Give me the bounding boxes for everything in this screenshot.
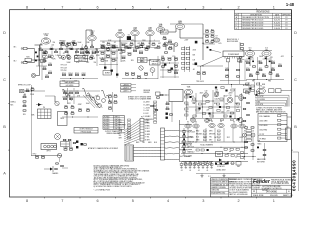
resistor R100 bbox=[245, 127, 248, 128]
svg-text:.022: .022 bbox=[51, 44, 54, 46]
svg-text:LED1 GRN: LED1 GRN bbox=[260, 120, 268, 122]
svg-text:SHEET 1 OF 1: SHEET 1 OF 1 bbox=[283, 195, 293, 197]
svg-text:10uF: 10uF bbox=[86, 103, 90, 105]
wire j5 down bbox=[244, 137, 246, 160]
svg-text:.68: .68 bbox=[23, 94, 25, 96]
svg-text:7: 7 bbox=[61, 199, 63, 203]
resistor R236 bbox=[174, 64, 178, 67]
svg-text:3: 3 bbox=[202, 6, 204, 10]
svg-text:EFFECTS LOOP: EFFECTS LOOP bbox=[18, 84, 32, 86]
svg-text:R83: R83 bbox=[71, 111, 74, 113]
resistor R227 bbox=[125, 72, 129, 75]
svg-text:.022: .022 bbox=[276, 74, 279, 76]
resistor R102 bbox=[245, 141, 248, 142]
svg-text:P5 RED: P5 RED bbox=[104, 126, 110, 128]
value speckle band1 bbox=[44, 58, 95, 61]
wire c2 low bbox=[122, 78, 158, 79]
svg-text:R221: R221 bbox=[121, 49, 125, 51]
label pa bbox=[196, 81, 204, 83]
box c2 lbl2 bbox=[150, 60, 161, 66]
resistor R98 bbox=[247, 114, 250, 115]
svg-text:C61: C61 bbox=[23, 104, 26, 106]
svg-text:P/N 057-00441: P/N 057-00441 bbox=[81, 132, 92, 134]
svg-text:2: 2 bbox=[238, 199, 240, 203]
wire mid bus2 bbox=[100, 47, 160, 48]
ribbon hooks bbox=[255, 95, 289, 106]
svg-text:V6: V6 bbox=[241, 121, 243, 123]
svg-text:2 TO J6 RING: 2 TO J6 RING bbox=[256, 99, 266, 101]
svg-text:TP20 0.45V: TP20 0.45V bbox=[196, 81, 204, 83]
resistor R31 bbox=[168, 40, 171, 43]
svg-text:7 YEL: 7 YEL bbox=[145, 137, 149, 139]
svg-text:47uF 450V: 47uF 450V bbox=[188, 131, 196, 133]
resistor R122 bbox=[56, 163, 59, 164]
ground sym a6 bbox=[44, 166, 58, 175]
value labels top bbox=[40, 39, 173, 57]
svg-text:8: 8 bbox=[26, 6, 28, 10]
comp col e5b bbox=[263, 143, 266, 160]
svg-text:J6: J6 bbox=[252, 131, 254, 133]
resistor R70 bbox=[63, 91, 66, 94]
svg-text:R45 220K GRID: R45 220K GRID bbox=[227, 41, 239, 43]
node blob bbox=[195, 41, 198, 44]
svg-text:T2: T2 bbox=[260, 86, 262, 88]
svg-text:R43: R43 bbox=[211, 34, 214, 36]
svg-text:R232: R232 bbox=[167, 57, 171, 59]
resistor R81 bbox=[71, 105, 74, 108]
fan wires bbox=[124, 120, 140, 146]
svg-text:DWELL: DWELL bbox=[11, 101, 16, 103]
svg-text:R76: R76 bbox=[114, 94, 117, 96]
svg-text:V3: V3 bbox=[211, 121, 213, 123]
label ac bbox=[216, 169, 226, 172]
node blob2 bbox=[195, 63, 224, 67]
value speckle band2 bbox=[105, 60, 160, 63]
svg-text:2K2: 2K2 bbox=[76, 58, 79, 60]
resistor R224 bbox=[133, 49, 137, 52]
wire mid v bbox=[153, 103, 155, 114]
svg-text:6) W DENOTES WIRE CONNECTION P: 6) W DENOTES WIRE CONNECTION POINTS. bbox=[94, 186, 133, 188]
wire d6 h bbox=[196, 173, 240, 175]
svg-text:R42: R42 bbox=[205, 34, 208, 36]
resistor R209 bbox=[100, 44, 104, 47]
svg-text:5-30-96: 5-30-96 bbox=[274, 28, 280, 30]
tube V3A bbox=[131, 26, 139, 35]
choke wires bbox=[165, 130, 180, 160]
wire ll h bbox=[31, 155, 62, 157]
resistor R79 bbox=[108, 106, 111, 109]
svg-text:.022: .022 bbox=[61, 58, 64, 60]
svg-text:+325: +325 bbox=[226, 111, 230, 113]
resistor R19 bbox=[165, 52, 168, 53]
resistor R126 bbox=[63, 139, 66, 140]
capacitor C205 bbox=[111, 70, 113, 72]
resistor R48 bbox=[202, 71, 205, 74]
resistor R45 bbox=[240, 48, 243, 50]
wire b2 h2 bbox=[99, 58, 118, 59]
svg-text:R211: R211 bbox=[111, 44, 115, 46]
resistor R229 bbox=[137, 75, 141, 78]
svg-text:+325V C: +325V C bbox=[123, 91, 130, 93]
svg-text:A: A bbox=[3, 172, 6, 176]
zigzag resistor Z5 bbox=[91, 97, 100, 105]
wire b3 h2 bbox=[62, 96, 95, 98]
svg-text:R30: R30 bbox=[163, 36, 166, 38]
capacitor C42 bbox=[225, 74, 228, 77]
svg-text:T1: T1 bbox=[128, 143, 130, 145]
ground chassis2 bbox=[222, 174, 225, 177]
svg-text:1K5: 1K5 bbox=[23, 114, 26, 116]
heater V2 bbox=[193, 121, 199, 128]
resistor R103 bbox=[245, 147, 248, 148]
capacitor C221 bbox=[144, 47, 148, 50]
wire c2 v2 bbox=[157, 56, 159, 79]
resistor R13 bbox=[118, 48, 121, 51]
svg-text:.1: .1 bbox=[246, 68, 247, 70]
T1 wire labels bbox=[136, 142, 157, 144]
resistor R121 bbox=[41, 155, 45, 158]
resistor R8 bbox=[96, 50, 99, 53]
svg-text:R124: R124 bbox=[63, 147, 67, 149]
svg-text:TP3 2.1V: TP3 2.1V bbox=[61, 65, 68, 67]
label col b2 bbox=[61, 65, 68, 73]
wire b3 v1 bbox=[67, 88, 69, 104]
svg-text:2K2: 2K2 bbox=[227, 137, 230, 139]
svg-text:R41: R41 bbox=[211, 29, 214, 31]
svg-text:220K 1W: 220K 1W bbox=[188, 141, 195, 143]
svg-text:+460: +460 bbox=[186, 105, 190, 107]
svg-text:5: 5 bbox=[132, 199, 134, 203]
resistor R83 bbox=[71, 111, 74, 114]
svg-text:12AX7: 12AX7 bbox=[43, 33, 48, 36]
svg-text:10uF: 10uF bbox=[91, 58, 95, 60]
resistor R62 bbox=[23, 101, 26, 102]
svg-text:4-26-95: 4-26-95 bbox=[274, 17, 280, 19]
resistor R90 bbox=[166, 102, 169, 105]
svg-text:GRN: GRN bbox=[119, 130, 122, 132]
svg-text:2K2: 2K2 bbox=[127, 48, 130, 50]
capacitor C206 bbox=[116, 74, 118, 76]
svg-text:7: 7 bbox=[61, 6, 63, 10]
tube V3B bbox=[146, 27, 154, 35]
svg-text:C +325V: C +325V bbox=[144, 107, 151, 109]
resistor R17 bbox=[157, 45, 160, 48]
svg-text:B: B bbox=[3, 125, 6, 129]
part number box bbox=[74, 128, 98, 134]
capacitor C51 bbox=[259, 68, 262, 71]
wire c2 v4 bbox=[174, 56, 176, 78]
svg-text:R235: R235 bbox=[167, 69, 171, 71]
resistor R40 bbox=[205, 29, 208, 32]
heater bus bbox=[179, 120, 181, 162]
input jack J1 bbox=[14, 47, 35, 50]
pt left comps bbox=[238, 57, 244, 62]
svg-text:B+ SUPPLY: B+ SUPPLY bbox=[243, 85, 251, 87]
svg-text:47P: 47P bbox=[131, 40, 134, 42]
svg-text:1K5: 1K5 bbox=[214, 103, 217, 105]
svg-text:C42: C42 bbox=[225, 74, 228, 76]
capacitor C50 bbox=[246, 68, 249, 71]
svg-text:R237: R237 bbox=[174, 71, 178, 73]
wire b2 v1 bbox=[84, 49, 86, 62]
resistor R56 bbox=[256, 71, 259, 74]
svg-text:0.2V: 0.2V bbox=[161, 56, 164, 58]
label under h3 bbox=[184, 155, 191, 158]
resistor R1 68K bbox=[40, 48, 43, 51]
resistor R223 bbox=[127, 46, 131, 49]
svg-text:1K5: 1K5 bbox=[85, 48, 88, 50]
svg-text:B: B bbox=[294, 125, 297, 129]
svg-text:470: 470 bbox=[245, 61, 248, 63]
capacitor C11 bbox=[135, 45, 138, 48]
label e4 bbox=[243, 85, 251, 87]
svg-text:RELEASED FOR PRODUCTION: RELEASED FOR PRODUCTION bbox=[242, 16, 269, 19]
svg-text:.68: .68 bbox=[202, 43, 204, 45]
svg-text:D +16V: D +16V bbox=[144, 110, 150, 112]
svg-text:R48: R48 bbox=[202, 71, 205, 73]
resistor R58 bbox=[269, 71, 272, 74]
svg-text:8-15-95: 8-15-95 bbox=[274, 22, 280, 24]
tone stack labels bbox=[59, 41, 76, 46]
wire screens bbox=[245, 57, 271, 80]
svg-text:2K2: 2K2 bbox=[170, 44, 173, 46]
label +16V bbox=[184, 40, 189, 42]
power cluster bbox=[216, 162, 229, 168]
resistor R3 1.5K bbox=[55, 50, 58, 53]
resistor R202 bbox=[73, 42, 77, 45]
svg-text:REVISED PER ECO 4123: REVISED PER ECO 4123 bbox=[242, 20, 263, 22]
title block bbox=[211, 178, 297, 197]
svg-text:.022: .022 bbox=[203, 137, 206, 139]
choke strip bbox=[161, 128, 165, 160]
resistor R80 bbox=[64, 105, 67, 108]
resistor R10 bbox=[101, 45, 104, 48]
box b2 lbl bbox=[103, 71, 112, 76]
resistor R41 bbox=[211, 29, 214, 32]
zigzag resistor Z1 bbox=[61, 89, 70, 97]
resistor R207 bbox=[86, 51, 90, 54]
d4 labels bbox=[185, 92, 239, 114]
resistor R12 bbox=[112, 45, 115, 48]
svg-text:MIX: MIX bbox=[11, 104, 14, 106]
transistor Q5 bbox=[57, 153, 62, 162]
wire d4 v2 bbox=[202, 95, 204, 118]
svg-text:C21: C21 bbox=[48, 71, 51, 73]
wiring table bbox=[103, 116, 124, 131]
heater top labels bbox=[209, 119, 240, 121]
resistor R32 bbox=[169, 48, 172, 49]
resistor R104 bbox=[251, 144, 254, 145]
wire fx vert bbox=[31, 85, 33, 156]
svg-text:C2: C2 bbox=[60, 47, 62, 49]
left bias column bbox=[183, 128, 186, 155]
svg-text:475K: 475K bbox=[193, 50, 197, 52]
svg-text:.022: .022 bbox=[87, 95, 90, 97]
resistor R206 bbox=[80, 51, 84, 54]
resistor R226 bbox=[139, 51, 143, 54]
capacitor C1 bbox=[50, 47, 53, 50]
wire pa v bbox=[200, 66, 202, 80]
pi approach blobs bbox=[207, 47, 222, 53]
resistor R220 bbox=[121, 43, 125, 46]
resistor R105 bbox=[251, 150, 254, 151]
svg-text:R58: R58 bbox=[269, 71, 272, 73]
resistor R63 bbox=[23, 110, 26, 111]
tube V2A bbox=[116, 28, 124, 37]
resistor R5 bbox=[76, 50, 79, 53]
svg-text:.68: .68 bbox=[193, 69, 195, 71]
pot master bbox=[98, 104, 102, 108]
svg-text:R71: R71 bbox=[69, 91, 72, 93]
resistor R203 bbox=[62, 73, 66, 76]
opto relay bbox=[41, 144, 57, 153]
resistor R51 bbox=[253, 66, 256, 67]
svg-text:C202: C202 bbox=[81, 73, 85, 75]
svg-text:R84: R84 bbox=[78, 108, 81, 110]
heater V4 bbox=[218, 121, 224, 128]
jack J6 bbox=[251, 131, 255, 137]
resistor R24 bbox=[43, 67, 46, 70]
wire ll v1 bbox=[66, 139, 71, 148]
left bias labels bbox=[188, 131, 196, 153]
value speckle d3 bbox=[202, 43, 222, 45]
resistor R71 bbox=[69, 91, 72, 94]
svg-text:C33: C33 bbox=[215, 89, 218, 91]
svg-text:047-04990: 047-04990 bbox=[266, 192, 278, 194]
svg-text:.1: .1 bbox=[82, 44, 83, 46]
filter cap FC7 bbox=[238, 117, 242, 123]
label under h1 bbox=[184, 144, 213, 147]
wire heater h3 bbox=[181, 153, 248, 154]
resistor R96 bbox=[247, 102, 250, 103]
bass pot bbox=[66, 45, 69, 49]
capacitor C21 bbox=[48, 71, 51, 74]
svg-text:4 LED RTN: 4 LED RTN bbox=[256, 104, 264, 106]
wire right col bbox=[239, 42, 241, 50]
svg-text:TP5 25V: TP5 25V bbox=[61, 70, 68, 72]
svg-text:.68: .68 bbox=[68, 48, 70, 50]
wirecolor rows B bbox=[209, 130, 220, 142]
svg-text:K1: K1 bbox=[128, 34, 130, 36]
svg-text:C30: C30 bbox=[163, 43, 166, 45]
wirecolor rows A bbox=[196, 130, 206, 142]
svg-text:B +460V: B +460V bbox=[144, 104, 151, 106]
jack J5 bbox=[243, 131, 247, 137]
svg-text:R204: R204 bbox=[68, 73, 72, 75]
svg-text:047-04990: 047-04990 bbox=[66, 85, 74, 87]
wiring table caption bbox=[105, 130, 123, 135]
jack send bbox=[20, 90, 24, 93]
svg-text:REVISIONS: REVISIONS bbox=[256, 10, 269, 13]
svg-text:P3 RED: P3 RED bbox=[104, 121, 110, 123]
wire left col bbox=[41, 50, 43, 80]
svg-text:SELECT: SELECT bbox=[152, 63, 158, 65]
wire d4 h4 bbox=[190, 118, 241, 119]
svg-text:.1: .1 bbox=[154, 40, 155, 42]
snubber labels bbox=[181, 170, 209, 172]
value speckle b2b bbox=[67, 62, 97, 64]
wire d4 h3 bbox=[196, 113, 235, 114]
svg-text:2K2: 2K2 bbox=[62, 42, 65, 44]
board wire diag bbox=[200, 57, 223, 67]
svg-text:BLU: BLU bbox=[196, 137, 199, 139]
svg-text:.022: .022 bbox=[137, 43, 140, 45]
wire V3B cathode bbox=[149, 36, 151, 47]
resistor R222 bbox=[121, 56, 125, 59]
wire fs h bbox=[242, 156, 256, 157]
tube V4 ell bbox=[257, 86, 266, 94]
svg-text:IN 2: IN 2 bbox=[14, 61, 17, 63]
capacitor C220 bbox=[139, 44, 143, 47]
resistor R21 bbox=[43, 51, 46, 54]
resistor R233 bbox=[174, 57, 178, 60]
svg-text:YEL: YEL bbox=[209, 137, 212, 139]
resistor R215 bbox=[100, 58, 104, 61]
resistor R25 bbox=[45, 75, 48, 78]
svg-text:R212: R212 bbox=[100, 51, 104, 53]
comp col e5 bbox=[241, 152, 244, 159]
grid stopper box bbox=[41, 60, 46, 63]
wire fs to border bbox=[287, 116, 292, 118]
box drive sw bbox=[75, 56, 88, 62]
capacitor C40 bbox=[205, 39, 208, 42]
wire to PI bbox=[196, 24, 203, 60]
svg-text:C40: C40 bbox=[205, 39, 208, 41]
svg-text:REVISED PER ECO 4385: REVISED PER ECO 4385 bbox=[242, 28, 263, 30]
resistor R201 bbox=[67, 42, 71, 45]
resistor R4 100K bbox=[65, 50, 68, 53]
resistor R57 bbox=[262, 74, 265, 77]
resistor R76 bbox=[114, 94, 117, 97]
wire b2 v5 bbox=[116, 45, 118, 78]
d4 comp col bbox=[185, 93, 188, 120]
svg-text:OUTPUT MODULE: OUTPUT MODULE bbox=[79, 129, 92, 131]
d4 blobs bbox=[189, 87, 239, 121]
svg-text:R225: R225 bbox=[127, 52, 131, 54]
svg-text:P4: P4 bbox=[43, 107, 45, 109]
resistor R208 bbox=[92, 51, 96, 54]
conn labels left bbox=[119, 119, 131, 140]
svg-text:10uF: 10uF bbox=[145, 48, 149, 50]
svg-text:1.7V: 1.7V bbox=[172, 56, 175, 58]
heater V1 bbox=[185, 121, 191, 128]
svg-text:R203: R203 bbox=[62, 73, 66, 75]
svg-text:.68: .68 bbox=[193, 103, 195, 105]
svg-text:R222: R222 bbox=[121, 56, 125, 58]
svg-text:R14: R14 bbox=[130, 42, 133, 44]
wire V2B plate bbox=[180, 29, 196, 38]
wire V3A cathode bbox=[134, 36, 136, 47]
jack J4 bbox=[67, 56, 71, 60]
diode D1 bbox=[36, 103, 43, 106]
resistor R11 bbox=[107, 42, 110, 45]
capacitor C91 bbox=[166, 117, 168, 119]
resistor R211 bbox=[111, 44, 115, 47]
svg-text:6L6: 6L6 bbox=[265, 48, 268, 50]
svg-text:10uF: 10uF bbox=[224, 96, 228, 98]
svg-text:P6 RED: P6 RED bbox=[104, 128, 110, 130]
svg-text:R77: R77 bbox=[108, 100, 111, 102]
capacitor C52 bbox=[271, 68, 274, 71]
wire d4 v3 bbox=[212, 90, 214, 118]
svg-text:P6 TIP: P6 TIP bbox=[260, 134, 265, 136]
svg-text:.68: .68 bbox=[114, 60, 116, 62]
svg-text:TIP: TIP bbox=[258, 141, 260, 143]
resistor R97 bbox=[243, 108, 246, 109]
svg-text:R85: R85 bbox=[86, 108, 89, 110]
zigzag resistor Z7 bbox=[105, 95, 114, 103]
pt lower labels bbox=[262, 84, 265, 89]
